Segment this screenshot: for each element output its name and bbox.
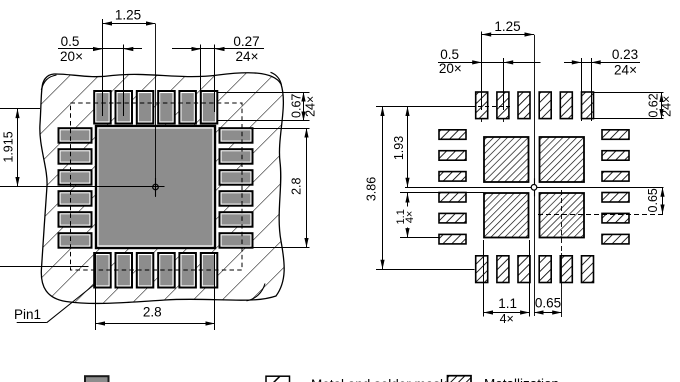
dim 1.1 4x bottom right figure [484,240,530,326]
thermal land square top-right [540,137,585,182]
land pad top 6 [582,92,594,119]
svg-text:24×: 24× [303,96,317,117]
land pad right 6 [602,234,629,244]
svg-text:4×: 4× [500,312,514,326]
dim 1.1 4x left side right figure [395,193,483,238]
pin pad top 5 [179,91,196,124]
svg-text:0.67: 0.67 [290,94,304,118]
dim 2.8 right-side left figure [253,128,310,248]
land pad bottom 1 [476,256,488,283]
svg-text:20×: 20× [439,61,462,76]
section hatching of package body [40,73,284,304]
pin pad top 3 [137,91,154,124]
dim 2.8 bottom left figure [96,254,216,330]
dashed centerline vertical of offset square [561,190,563,253]
land pad bottom 4 [539,256,551,283]
dim 0.65 right side right figure [646,187,664,214]
legend solder mask swatch [266,376,290,382]
corner fold top-right [271,72,282,85]
dim 0.67 24x left figure [217,92,317,121]
dim 1.25 right figure [482,19,535,110]
pin pad left 5 [59,212,92,227]
package body torn-paper outline [40,73,284,304]
pin pad left 6 [59,233,92,248]
land pad left 4 [439,193,466,203]
dim 0.23 24x right figure [564,47,640,121]
left edge extension line bottom [0,266,89,268]
land pad right 4 [602,193,629,203]
dim 0.62 24x right figure [594,93,674,119]
svg-text:2.8: 2.8 [290,177,304,194]
dim 0.5 20x right figure [438,47,541,122]
pin pad right 4 [220,191,253,206]
land pad top 1 [476,92,488,119]
land pad top 2 [497,92,509,119]
svg-text:24×: 24× [236,49,259,64]
svg-text:1.915: 1.915 [1,131,15,162]
svg-text:4×: 4× [404,211,416,224]
pin pad bottom 6 [201,253,218,288]
svg-text:0.5: 0.5 [61,34,80,49]
pin pad right 2 [220,149,253,164]
land pad right 3 [602,172,629,182]
pin pad top 4 [158,91,175,124]
land pad left 1 [439,130,466,140]
dim 0.27 24x left figure [172,34,264,112]
horizontal centerline right figure [405,187,664,189]
svg-text:24×: 24× [614,63,637,78]
legend copper swatch [85,376,109,382]
pin pad left 4 [59,191,92,206]
land pad left 3 [439,172,466,182]
center mark right figure [525,178,543,196]
land pad left 5 [439,213,466,223]
svg-text:20×: 20× [60,49,83,64]
land pad right 1 [602,130,629,140]
land pad right 5 [602,213,629,223]
dim 0.5 20x left figure [58,34,142,116]
pin pad right 6 [220,233,253,248]
svg-text:0.27: 0.27 [233,34,259,49]
thermal land square bottom-right [540,193,585,238]
corner fold bottom-right [247,284,266,301]
pin pad left 2 [59,149,92,164]
svg-text:Pin1: Pin1 [14,307,41,322]
land pad bottom 6 [582,256,594,283]
pin pad top 1 [94,91,111,124]
land pad right 2 [602,151,629,161]
svg-text:0.65: 0.65 [535,296,561,311]
svg-text:0.5: 0.5 [440,47,459,62]
svg-text:1.93: 1.93 [392,136,406,160]
land pad left 2 [439,151,466,161]
svg-text:0.23: 0.23 [612,47,638,62]
vertical centerline right figure [534,35,536,316]
pin pad top 2 [116,91,133,124]
land pad top 3 [518,92,530,119]
land pad bottom 2 [497,256,509,283]
thermal land square bottom-left [484,193,529,238]
pin pad bottom 1 [94,253,111,288]
svg-text:2.8: 2.8 [143,305,162,320]
dim 1.93 right figure [392,107,410,188]
legend metallization swatch [448,376,472,382]
dim 0.65 bottom right figure [534,296,562,315]
pin pad right 3 [220,170,253,185]
pin pad bottom 2 [116,253,133,288]
pin pad top 6 [201,91,218,124]
pin pad right 1 [220,128,253,143]
pin pad bottom 5 [179,253,196,288]
Pin1 label and leader [14,284,95,323]
svg-text:24×: 24× [660,96,674,117]
pin pad bottom 3 [137,253,154,288]
svg-text:1.25: 1.25 [494,19,520,34]
svg-text:Metal and solder mask: Metal and solder mask [311,377,447,382]
package body edge [40,73,284,304]
dim 3.86 right figure [364,107,474,270]
land pad bottom 3 [518,256,530,283]
package outline dashed [71,103,243,270]
dashed centerline horizontal of offset square [538,214,664,216]
vertical centerline left figure [155,24,157,197]
corner fold top-left [41,75,56,90]
svg-text:0.62: 0.62 [646,93,660,117]
pin pad left 3 [59,170,92,185]
pin pad left 1 [59,128,92,143]
center mark left figure [147,178,165,196]
svg-text:3.86: 3.86 [364,177,378,201]
land pad top 5 [560,92,572,119]
svg-text:Metallization: Metallization [484,377,559,382]
svg-text:0.65: 0.65 [646,188,660,212]
svg-text:1.25: 1.25 [115,7,141,22]
pin pad right 5 [220,212,253,227]
dim 1.915 left figure [0,109,40,187]
thermal land square top-left [484,137,529,182]
svg-text:1.1: 1.1 [498,296,517,311]
land pad left 6 [439,234,466,244]
land pad top 4 [539,92,551,119]
pin pad bottom 4 [158,253,175,288]
pad row centerline dashed [471,106,513,108]
solid extension below [561,253,563,317]
thermal pad (exposed die pad) [96,126,215,248]
land pad bottom 5 [560,256,572,283]
horizontal centerline left figure [0,186,151,188]
dim 1.25 left figure [103,7,156,116]
